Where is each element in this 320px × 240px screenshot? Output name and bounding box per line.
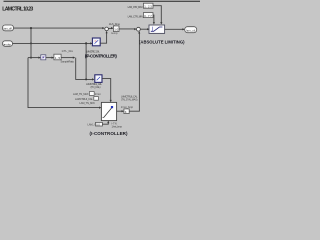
wire gain to sum B bbox=[119, 28, 136, 30]
node dot junction x86 on y79.4 bbox=[85, 78, 87, 80]
svg-text:LAMCTRL 10.23: LAMCTRL 10.23 bbox=[2, 7, 33, 13]
sum B bbox=[137, 27, 141, 31]
wire IP out up to sum A bbox=[100, 32, 106, 44]
wire into diff block bbox=[28, 57, 40, 59]
wire integrator to I gain block bbox=[117, 110, 124, 112]
wire from min const down into limiter bbox=[152, 15, 155, 24]
wire main line from inport1 to sum A bbox=[14, 27, 105, 29]
wire vertical x86 down bbox=[85, 43, 87, 79]
wire I gain up to sum B bbox=[129, 32, 139, 111]
wire block2 out right and down into integrator top bbox=[102, 79, 111, 102]
svg-text:LAM_TN_MIN: LAM_TN_MIN bbox=[80, 102, 95, 105]
wire sum B to limiter bbox=[140, 28, 149, 30]
svg-text:LAM_CTR_MAX: LAM_CTR_MAX bbox=[128, 6, 144, 9]
IP lower blue block (I input shaping) bbox=[95, 75, 102, 83]
wire feedback left rail bbox=[28, 58, 101, 108]
svg-text:0.0: 0.0 bbox=[96, 123, 100, 126]
svg-text:lam_ctl: lam_ctl bbox=[186, 29, 195, 33]
svg-text:lam_dif: lam_dif bbox=[4, 27, 12, 31]
svg-text:1.5: 1.5 bbox=[55, 56, 61, 60]
integrator big block bbox=[101, 102, 116, 120]
wire ratio output to corner bbox=[61, 57, 74, 59]
svg-text:(TN_CAL): (TN_CAL) bbox=[91, 85, 101, 89]
limiter block bbox=[149, 25, 165, 33]
node dot on error line bbox=[30, 57, 32, 59]
diff block bbox=[41, 55, 46, 60]
ratio block bbox=[54, 54, 61, 60]
constant LAM_CTRL_MAX bbox=[143, 3, 153, 8]
node dot on inport2 line bbox=[30, 42, 32, 44]
gain block bbox=[113, 26, 119, 32]
svg-text:0.77: 0.77 bbox=[144, 14, 152, 18]
inport 2 bbox=[3, 41, 13, 47]
svg-text:lam_sbg: lam_sbg bbox=[4, 42, 12, 46]
sum A bbox=[105, 27, 109, 31]
svg-text:1.0: 1.0 bbox=[114, 27, 118, 31]
node main branch dot bbox=[30, 27, 32, 29]
svg-text:1/nst_bmp: 1/nst_bmp bbox=[121, 106, 134, 109]
top separator line bbox=[4, 1, 201, 2]
wire inport2 to IP block bbox=[13, 42, 92, 44]
svg-text:LAM_CTR_MIN: LAM_CTR_MIN bbox=[128, 15, 143, 18]
svg-text:(TN_SYN_MAX): (TN_SYN_MAX) bbox=[121, 98, 138, 101]
svg-text:LAM_I: LAM_I bbox=[88, 124, 95, 127]
bottom small const block bbox=[96, 122, 103, 126]
wire diff to ratio block bbox=[46, 57, 54, 59]
svg-text:1/TL_Dre: 1/TL_Dre bbox=[62, 49, 74, 53]
svg-text:K: K bbox=[125, 110, 127, 114]
wire sumA to gain bbox=[108, 27, 112, 29]
I gain block bbox=[124, 109, 129, 114]
outport bbox=[185, 27, 197, 33]
wire limiter to outport bbox=[165, 28, 184, 30]
svg-text:LAMCTRL6_CAL: LAMCTRL6_CAL bbox=[75, 98, 93, 101]
svg-text:LAM_TN_MAX: LAM_TN_MAX bbox=[73, 93, 89, 96]
wire from max const down into limiter bbox=[153, 6, 161, 24]
wire vertical drop x31 bbox=[30, 28, 32, 57]
constant LAM_CTRL_MIN bbox=[143, 13, 153, 18]
svg-text:temp: temp bbox=[111, 31, 118, 35]
svg-text:1.23: 1.23 bbox=[144, 4, 152, 8]
svg-text:1/nst: 1/nst bbox=[95, 93, 101, 96]
node dot branch to I path bbox=[85, 42, 87, 44]
svg-text:(I-CONTROLLER): (I-CONTROLLER) bbox=[90, 131, 129, 136]
wire down x75.7 bbox=[76, 58, 94, 80]
IP controller block U1 bbox=[92, 38, 100, 46]
svg-text:(ABSOLUTE LIMITING): (ABSOLUTE LIMITING) bbox=[139, 39, 185, 44]
svg-text:1/LS_Dme: 1/LS_Dme bbox=[109, 22, 121, 26]
svg-text:SampleRatio: SampleRatio bbox=[61, 59, 75, 63]
svg-text:1/nst_bmp: 1/nst_bmp bbox=[112, 125, 123, 128]
wire const up into integrator bottom bbox=[102, 121, 108, 124]
inport 1 bbox=[3, 25, 14, 31]
svg-text:(IP-CONTROLLER): (IP-CONTROLLER) bbox=[85, 54, 118, 59]
